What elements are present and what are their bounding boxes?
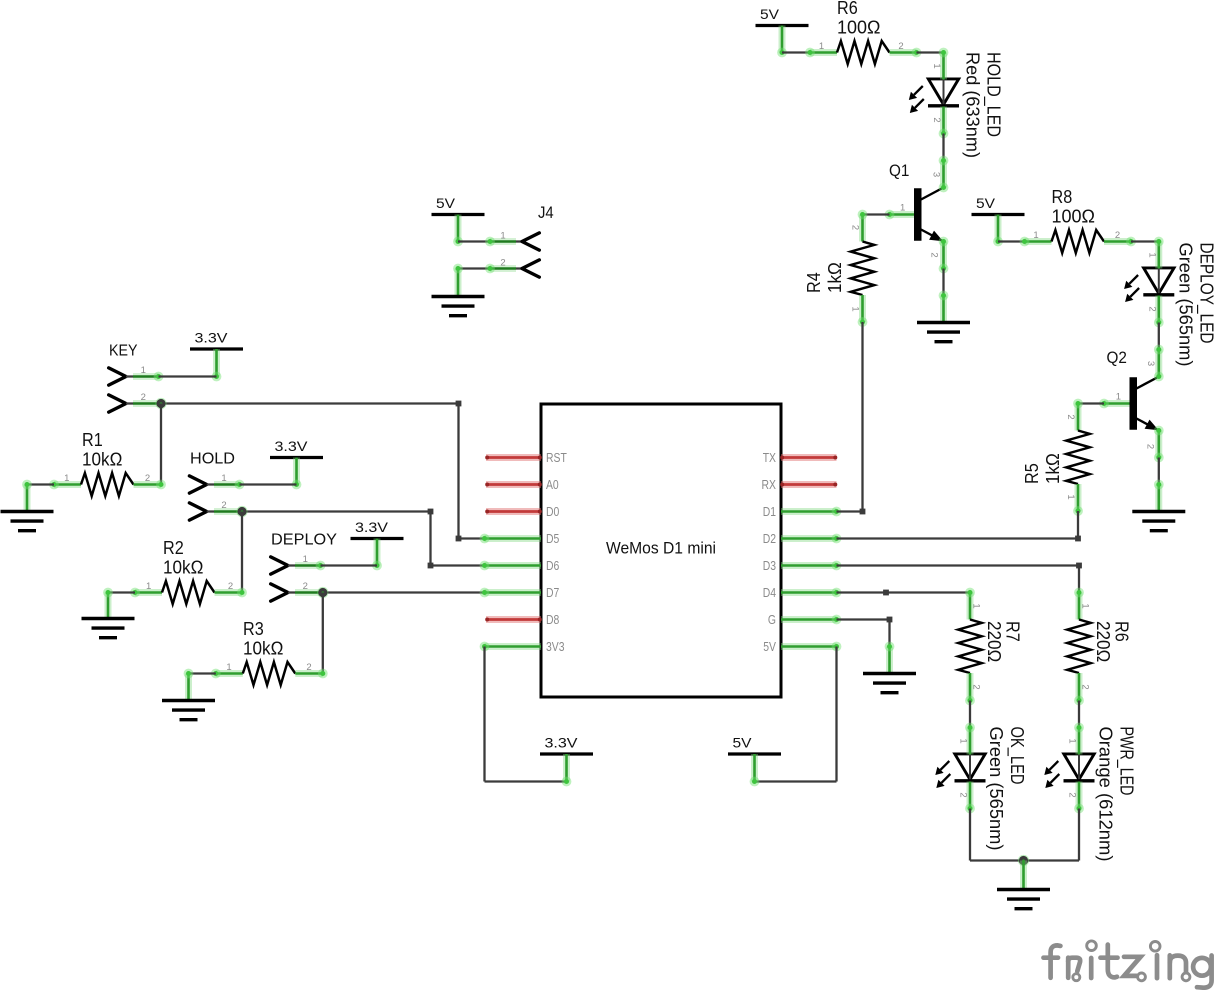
power +3.3V P3 — [190, 330, 243, 382]
svg-text:R3: R3 — [243, 619, 264, 639]
svg-text:D3: D3 — [763, 558, 776, 573]
LED OK_LED — [935, 723, 985, 814]
wire — [242, 509, 433, 515]
svg-text:G: G — [768, 612, 776, 627]
wire — [1075, 511, 1081, 541]
svg-text:5V: 5V — [760, 6, 780, 22]
svg-text:R5: R5 — [1022, 463, 1042, 484]
ground — [863, 642, 916, 693]
wire D3 — [837, 563, 1082, 593]
svg-text:1: 1 — [146, 581, 151, 592]
svg-text:Green (565nm): Green (565nm) — [1176, 243, 1196, 367]
svg-text:PWR_LED: PWR_LED — [1116, 727, 1137, 796]
wire — [322, 593, 324, 674]
IC pin TX (n/c) — [780, 456, 837, 460]
transistor Q2 — [1099, 345, 1164, 463]
wire — [1078, 402, 1104, 404]
resistor R1 (10k) — [49, 430, 166, 496]
IC pin RST (n/c) — [485, 456, 542, 460]
svg-text:2: 2 — [1115, 230, 1120, 241]
svg-text:A0: A0 — [546, 477, 559, 492]
label PWR_LED — [1096, 727, 1137, 862]
svg-text:Green (565nm): Green (565nm) — [986, 727, 1006, 851]
wire — [241, 512, 243, 593]
svg-text:5V: 5V — [763, 639, 776, 654]
svg-text:TX: TX — [763, 450, 777, 465]
wire — [863, 213, 890, 215]
IC pin D7 — [480, 588, 541, 598]
label OK_LED — [986, 727, 1027, 851]
svg-text:1: 1 — [64, 473, 69, 484]
wire — [1024, 809, 1080, 861]
svg-text:2: 2 — [958, 792, 969, 797]
ground — [82, 588, 135, 638]
wire — [1158, 323, 1160, 350]
wire — [457, 267, 459, 269]
IC pin D2 — [781, 534, 841, 544]
power +3.3V P4 — [270, 438, 323, 489]
power +5V P2 — [432, 195, 485, 246]
junction — [1018, 855, 1029, 866]
svg-text:R4: R4 — [804, 272, 824, 293]
wire — [189, 672, 216, 674]
svg-text:2: 2 — [1147, 306, 1158, 311]
IC pin D3 — [781, 561, 841, 571]
LED PWR_LED — [1044, 723, 1094, 814]
wire — [161, 401, 461, 407]
junction — [317, 587, 328, 598]
svg-text:J4: J4 — [538, 204, 554, 222]
ground — [917, 291, 970, 342]
svg-text:2: 2 — [898, 41, 903, 52]
svg-text:R2: R2 — [163, 538, 184, 558]
wire — [1131, 240, 1159, 242]
svg-text:RX: RX — [762, 477, 777, 492]
IC pin A0 (n/c) — [485, 483, 542, 487]
svg-text:HOLD: HOLD — [190, 451, 235, 468]
transistor Q1 — [885, 156, 949, 274]
svg-text:1: 1 — [500, 231, 505, 242]
LED DEPLOY_LED — [1124, 237, 1174, 328]
wire — [323, 591, 485, 593]
wire — [942, 134, 944, 161]
svg-text:220Ω: 220Ω — [984, 621, 1004, 662]
wire — [861, 322, 863, 512]
svg-text:10kΩ: 10kΩ — [163, 558, 203, 578]
svg-text:D6: D6 — [546, 558, 559, 573]
svg-text:100Ω: 100Ω — [837, 18, 880, 38]
svg-text:Orange (612nm): Orange (612nm) — [1096, 727, 1116, 862]
ground — [1, 480, 54, 531]
wire 5V — [755, 647, 837, 782]
svg-text:3.3V: 3.3V — [195, 330, 229, 346]
wire — [321, 564, 378, 566]
ground — [162, 669, 215, 720]
wire D2-R5 — [837, 537, 1079, 539]
svg-text:D2: D2 — [763, 531, 776, 546]
svg-text:RST: RST — [546, 450, 567, 465]
svg-text:1: 1 — [819, 41, 824, 52]
power +5V P1 — [756, 6, 809, 57]
wire — [942, 269, 944, 296]
svg-text:2: 2 — [306, 662, 311, 673]
svg-text:2: 2 — [145, 473, 150, 484]
IC pin 5V — [781, 642, 841, 652]
svg-text:3.3V: 3.3V — [275, 438, 309, 454]
svg-text:100Ω: 100Ω — [1052, 207, 1095, 227]
IC pin RX (n/c) — [780, 483, 837, 487]
svg-text:WeMos D1 mini: WeMos D1 mini — [606, 539, 716, 558]
svg-text:D0: D0 — [546, 504, 559, 519]
svg-text:5V: 5V — [436, 195, 456, 211]
svg-text:1: 1 — [1080, 603, 1091, 608]
resistor R6 (100) — [805, 0, 921, 64]
svg-text:D4: D4 — [763, 585, 776, 600]
resistor R2 (10k) — [130, 538, 247, 604]
connector HOLD — [189, 451, 244, 521]
junction — [155, 398, 166, 409]
ground — [997, 861, 1050, 909]
wire — [998, 240, 1025, 242]
svg-text:10kΩ: 10kΩ — [82, 450, 122, 470]
svg-text:1: 1 — [1033, 230, 1038, 241]
wire D1-R4 — [837, 509, 866, 515]
label DEPLOY_LED — [1176, 243, 1215, 367]
resistor R6 (220) — [1067, 588, 1131, 706]
svg-text:Q2: Q2 — [1107, 348, 1127, 367]
label HOLD_LED — [963, 52, 1004, 158]
svg-text:5V: 5V — [733, 735, 753, 751]
IC U1 WeMos D1 mini box — [541, 404, 781, 697]
svg-text:1kΩ: 1kΩ — [825, 262, 845, 293]
svg-text:R1: R1 — [82, 430, 103, 450]
svg-text:3V3: 3V3 — [546, 639, 565, 654]
wire — [969, 701, 971, 728]
svg-text:1: 1 — [226, 662, 231, 673]
wire G-gnd — [837, 617, 893, 647]
wire — [27, 483, 54, 485]
svg-text:2: 2 — [1065, 414, 1076, 419]
svg-text:2: 2 — [500, 258, 505, 269]
svg-text:1: 1 — [1116, 392, 1121, 403]
wire — [1158, 458, 1160, 485]
IC pin D5 — [480, 534, 541, 544]
svg-text:1: 1 — [850, 306, 861, 311]
svg-text:3.3V: 3.3V — [545, 735, 579, 751]
resistor R3 (10k) — [211, 619, 328, 685]
svg-text:3: 3 — [931, 172, 942, 177]
IC pin D6 — [480, 561, 541, 571]
IC right pin names — [762, 450, 777, 654]
connector KEY — [109, 343, 164, 413]
power +3.3V P6 — [540, 735, 593, 787]
svg-text:2: 2 — [221, 500, 226, 511]
svg-text:R6: R6 — [837, 0, 858, 18]
svg-text:2: 2 — [931, 117, 942, 122]
power +5V P7 — [728, 735, 781, 787]
svg-text:2: 2 — [141, 392, 146, 403]
svg-text:Red (633nm): Red (633nm) — [963, 52, 983, 158]
IC pin D8 (n/c) — [485, 618, 542, 622]
power +5V P8 — [972, 195, 1025, 246]
wire D4 — [837, 590, 971, 596]
svg-text:Q1: Q1 — [889, 161, 909, 180]
svg-text:1: 1 — [1147, 252, 1158, 257]
wire — [456, 404, 485, 542]
svg-text:R8: R8 — [1052, 187, 1073, 207]
svg-text:1: 1 — [303, 554, 308, 565]
IC pin D1 — [781, 507, 841, 517]
wire — [917, 53, 944, 54]
svg-text:2: 2 — [850, 225, 861, 230]
wire — [108, 591, 135, 593]
svg-text:1kΩ: 1kΩ — [1043, 453, 1063, 484]
svg-text:HOLD_LED: HOLD_LED — [983, 52, 1004, 137]
svg-text:220Ω: 220Ω — [1093, 621, 1113, 662]
svg-text:3: 3 — [1145, 361, 1156, 366]
svg-text:5V: 5V — [976, 195, 996, 211]
svg-text:1: 1 — [221, 473, 226, 484]
resistor R4 (1k) — [804, 210, 874, 327]
IC pin 3V3 — [480, 642, 541, 652]
IC pin D4 — [781, 588, 841, 598]
wire 3V3 — [485, 647, 567, 782]
wire — [970, 809, 1024, 861]
wire — [1078, 701, 1080, 728]
wire — [160, 404, 162, 485]
svg-text:DEPLOY_LED: DEPLOY_LED — [1196, 243, 1215, 344]
svg-text:D1: D1 — [763, 504, 776, 519]
svg-text:KEY: KEY — [109, 343, 138, 360]
power +3.3V P5 — [351, 519, 404, 570]
wire — [159, 375, 217, 377]
svg-text:D5: D5 — [546, 531, 559, 546]
svg-text:1: 1 — [141, 365, 146, 376]
svg-text:2: 2 — [1067, 792, 1078, 797]
svg-text:OK_LED: OK_LED — [1006, 727, 1027, 785]
svg-text:2: 2 — [1145, 444, 1156, 449]
svg-text:DEPLOY: DEPLOY — [271, 532, 337, 549]
svg-text:R6: R6 — [1112, 621, 1132, 642]
svg-text:1: 1 — [931, 63, 942, 68]
IC left pin names — [546, 450, 567, 654]
junction — [236, 506, 247, 517]
svg-text:2: 2 — [1080, 684, 1091, 689]
svg-text:2: 2 — [303, 581, 308, 592]
wire — [428, 512, 485, 569]
svg-text:1: 1 — [971, 603, 982, 608]
svg-text:D7: D7 — [546, 585, 559, 600]
resistor R5 (1k) — [1022, 399, 1090, 516]
wire — [782, 51, 810, 53]
connector J4 — [458, 204, 554, 277]
IC pin D0 (n/c) — [485, 510, 542, 514]
resistor R8 (100) — [1020, 187, 1136, 253]
svg-text:1: 1 — [900, 203, 905, 214]
svg-text:2: 2 — [228, 581, 233, 592]
svg-text:1: 1 — [1065, 494, 1076, 499]
svg-text:2: 2 — [928, 252, 939, 257]
ground — [432, 264, 485, 316]
svg-text:1: 1 — [958, 738, 969, 743]
connector DEPLOY — [271, 532, 338, 602]
wire — [240, 483, 297, 485]
fritzing watermark — [1044, 941, 1212, 988]
IC pin G — [781, 615, 841, 625]
resistor R7 (220) — [958, 588, 1022, 706]
svg-text:2: 2 — [971, 684, 982, 689]
ground — [1132, 480, 1185, 531]
svg-text:D8: D8 — [546, 612, 559, 627]
svg-text:3.3V: 3.3V — [355, 519, 389, 535]
svg-text:10kΩ: 10kΩ — [243, 639, 283, 659]
LED HOLD_LED — [909, 48, 959, 139]
svg-text:1: 1 — [1067, 738, 1078, 743]
svg-text:R7: R7 — [1003, 621, 1023, 642]
